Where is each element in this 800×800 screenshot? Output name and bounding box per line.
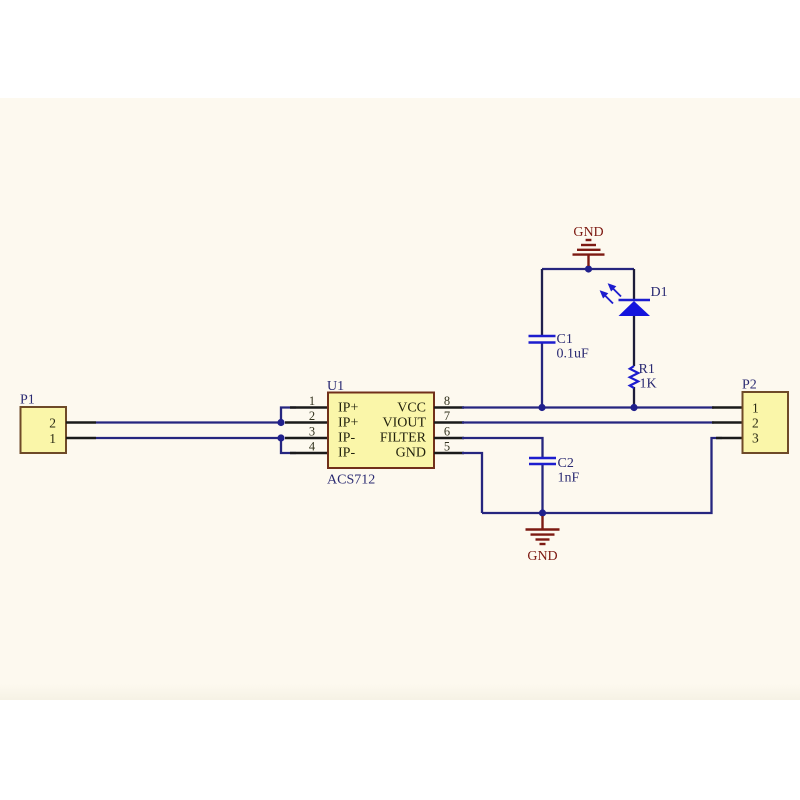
svg-text:3: 3 — [309, 425, 315, 439]
svg-text:2: 2 — [49, 416, 56, 431]
svg-text:5: 5 — [444, 440, 450, 454]
svg-text:GND: GND — [527, 549, 557, 564]
wire GND pin5 down — [462, 453, 482, 513]
wire FILTER to C2 — [462, 438, 543, 458]
wire P1.2 to bus node A — [96, 421, 281, 423]
svg-text:VIOUT: VIOUT — [382, 416, 426, 431]
ground GND top — [573, 240, 605, 266]
node B junction — [277, 434, 284, 441]
svg-text:IP-: IP- — [338, 446, 355, 461]
connector P2 — [742, 378, 788, 454]
pin P2.1 stub — [712, 406, 743, 408]
wire bus vertical pins 3-4 — [281, 438, 296, 453]
wire C1 upper — [541, 269, 543, 336]
svg-text:8: 8 — [444, 394, 450, 408]
pin U1.3 — [285, 437, 328, 439]
pin P1.2 stub — [66, 421, 96, 423]
IC U1 body — [327, 379, 434, 488]
pin P2.3 stub — [716, 437, 743, 439]
node C1-VCC junction — [538, 404, 545, 411]
svg-text:1: 1 — [752, 401, 759, 416]
pin U1.7 — [434, 421, 464, 423]
wire D1 upper — [633, 269, 635, 300]
svg-text:1K: 1K — [640, 377, 657, 392]
pin U1.5 — [434, 452, 464, 454]
svg-text:U1: U1 — [327, 379, 344, 394]
svg-text:P1: P1 — [20, 393, 35, 408]
svg-text:IP-: IP- — [338, 431, 355, 446]
node C2-gnd junction — [539, 509, 546, 516]
pin U1.8 — [434, 406, 464, 408]
svg-text:P2: P2 — [742, 378, 757, 393]
pin U1.4 — [290, 452, 328, 454]
pin P2.2 stub — [712, 421, 743, 423]
svg-text:GND: GND — [573, 225, 603, 240]
svg-text:7: 7 — [444, 409, 450, 423]
svg-text:C2: C2 — [558, 456, 574, 471]
pin U1.6 — [434, 437, 464, 439]
wire C1 lower — [541, 343, 543, 408]
svg-text:GND: GND — [396, 446, 426, 461]
svg-text:IP+: IP+ — [338, 401, 358, 416]
svg-text:2: 2 — [309, 409, 315, 423]
wire top gnd rail — [542, 268, 634, 270]
svg-text:ACS712: ACS712 — [327, 473, 375, 488]
wire VCC rail — [462, 406, 714, 408]
LED D1 arrows — [601, 285, 621, 304]
wire bottom gnd rail — [482, 438, 722, 513]
pin U1.1 — [290, 406, 328, 408]
svg-text:1: 1 — [49, 431, 56, 446]
svg-text:FILTER: FILTER — [380, 431, 427, 446]
node R1-VCC junction — [630, 404, 637, 411]
pin U1.2 — [285, 421, 328, 423]
LED D1 — [619, 300, 651, 316]
svg-text:1nF: 1nF — [558, 471, 580, 486]
capacitor C2 — [529, 458, 556, 464]
wire P1.1 to bus node B — [96, 437, 281, 439]
node top gnd junction — [585, 265, 592, 272]
svg-text:3: 3 — [752, 431, 759, 446]
svg-text:C1: C1 — [557, 332, 573, 347]
wire R1 to rail — [633, 387, 635, 408]
resistor R1 — [630, 366, 638, 388]
wire bus vertical pins 1-2 — [281, 408, 296, 423]
connector P1 — [20, 393, 66, 454]
pin P1.1 stub — [66, 437, 96, 439]
node A junction — [277, 419, 284, 426]
wire C2 lower — [541, 464, 543, 513]
svg-text:4: 4 — [309, 440, 316, 454]
svg-text:R1: R1 — [639, 362, 655, 377]
svg-text:0.1uF: 0.1uF — [557, 347, 590, 362]
svg-text:2: 2 — [752, 416, 759, 431]
ground GND bottom — [526, 516, 560, 544]
svg-text:6: 6 — [444, 425, 450, 439]
capacitor C1 — [529, 336, 556, 343]
svg-text:VCC: VCC — [397, 401, 426, 416]
wire VIOUT rail — [462, 421, 714, 423]
wire D1 to R1 — [633, 316, 635, 366]
svg-text:1: 1 — [309, 394, 315, 408]
svg-text:D1: D1 — [651, 285, 668, 300]
svg-text:IP+: IP+ — [338, 416, 358, 431]
